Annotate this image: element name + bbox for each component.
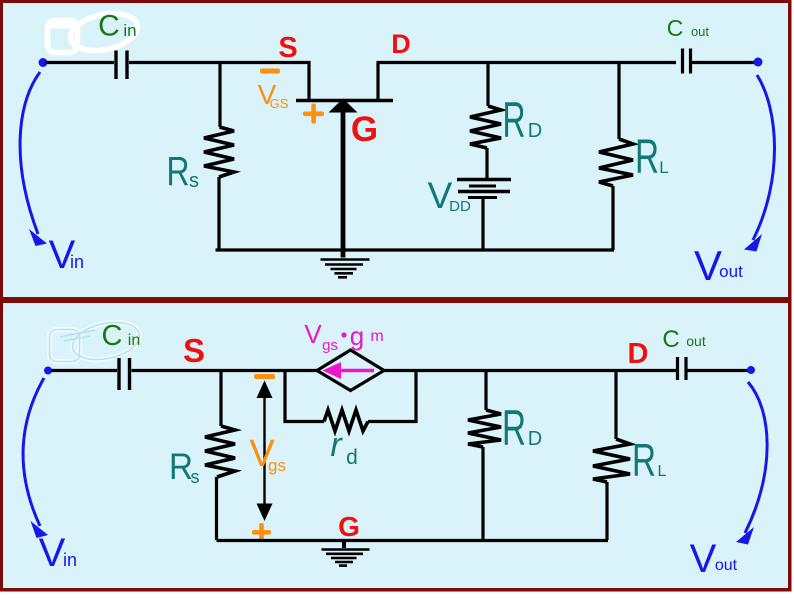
- svg-text:C: C: [102, 320, 123, 352]
- svg-text:R: R: [167, 148, 190, 194]
- capacitor Cout (bottom): [678, 357, 687, 380]
- label RD (bottom): [502, 400, 542, 456]
- label Cin (top): [98, 10, 136, 43]
- wire Cout to output terminal (bottom): [688, 369, 750, 372]
- ground (bottom): [342, 542, 346, 548]
- wire RL to bottom rail: [611, 186, 614, 250]
- wire diamond to drain rail (bottom): [384, 369, 676, 372]
- svg-text:r: r: [330, 426, 343, 464]
- svg-text:DD: DD: [449, 198, 471, 215]
- svg-text:D: D: [628, 338, 649, 370]
- label RD (top): [503, 92, 543, 148]
- resistor RL (top): [599, 139, 633, 186]
- svg-text:D: D: [528, 120, 542, 142]
- annotation arrow Vgs double-headed: [263, 392, 265, 510]
- arrow Vout (top): [753, 75, 775, 240]
- label VGS (top): [258, 79, 289, 111]
- wire Cout to output terminal: [692, 61, 756, 64]
- svg-text:in: in: [128, 332, 140, 349]
- svg-text:in: in: [63, 550, 77, 570]
- wire bottom rail (top panel): [216, 248, 615, 251]
- label rd: [330, 426, 358, 469]
- resistor RD (top): [470, 106, 501, 148]
- label RL (top): [635, 131, 669, 184]
- wire RL to bottom rail (bottom): [605, 482, 608, 540]
- label Cout (bottom): [662, 326, 706, 353]
- resistor RS (bottom): [205, 426, 235, 477]
- wire rd branch right: [368, 372, 416, 422]
- node output terminal (top): [754, 58, 763, 67]
- wire S node down to Rs (bottom): [219, 372, 222, 426]
- label Cin (bottom): [102, 320, 141, 352]
- resistor RD (bottom): [468, 410, 501, 447]
- svg-text:R: R: [635, 131, 659, 184]
- svg-text:L: L: [659, 158, 668, 177]
- svg-text:C: C: [667, 15, 684, 41]
- arrow Vout (bottom): [745, 382, 767, 533]
- svg-text:in: in: [123, 21, 136, 40]
- label RS (bottom): [169, 446, 200, 487]
- arrow Vin (bottom): [23, 378, 44, 526]
- svg-text:s: s: [189, 170, 199, 192]
- svg-text:V: V: [39, 531, 66, 575]
- svg-text:V: V: [694, 242, 722, 289]
- svg-text:gs: gs: [268, 456, 286, 475]
- capacitor Cin: [116, 51, 127, 80]
- wire rd branch left: [285, 372, 324, 422]
- label Vgs (bottom): [249, 433, 286, 475]
- node input terminal (top): [39, 58, 48, 67]
- svg-text:m: m: [370, 328, 383, 345]
- svg-text:d: d: [346, 446, 358, 469]
- label Vout (top): [694, 242, 743, 289]
- svg-text:S: S: [278, 32, 297, 64]
- hand cursor icon (bottom, faint): [50, 317, 143, 365]
- svg-text:L: L: [658, 463, 667, 480]
- wire RD branch (bottom): [484, 372, 487, 410]
- node output terminal (bottom): [747, 366, 755, 374]
- svg-text:D: D: [528, 428, 542, 450]
- wire battery to bottom rail: [481, 199, 484, 250]
- transistor Q1 channel bar: [296, 99, 393, 103]
- wire bottom rail (bottom panel): [217, 539, 609, 542]
- svg-text:s: s: [191, 467, 200, 487]
- wire input to Cin (bottom): [51, 369, 117, 372]
- node input terminal (bottom): [44, 367, 52, 375]
- transistor Q1 gate lead: [341, 110, 346, 258]
- svg-text:S: S: [183, 332, 205, 369]
- svg-text:in: in: [70, 252, 84, 272]
- label Vgs.gm (magenta): [304, 319, 383, 354]
- label Vin (top): [49, 233, 84, 277]
- resistor RS (top): [204, 127, 234, 177]
- wire RD branch top: [486, 64, 489, 106]
- svg-text:g: g: [350, 321, 364, 351]
- wire RD to battery: [485, 148, 488, 178]
- label plus of VGS (top): [303, 104, 324, 124]
- svg-text:G: G: [351, 110, 378, 149]
- resistor RL (bottom): [593, 439, 630, 482]
- capacitor Cin (bottom): [119, 358, 130, 390]
- wire Rs to bottom rail (bottom): [215, 477, 218, 540]
- svg-text:R: R: [169, 446, 193, 487]
- label Vout (bottom): [690, 537, 738, 581]
- dependent source arrow (magenta): [336, 369, 374, 372]
- svg-text:D: D: [391, 29, 411, 59]
- ground (top): [321, 260, 370, 278]
- label RS (top): [167, 148, 200, 194]
- svg-text:GS: GS: [270, 96, 289, 111]
- resistor rd: [324, 410, 368, 431]
- svg-text:out: out: [691, 24, 709, 39]
- svg-text:C: C: [662, 326, 679, 353]
- battery VDD: [457, 180, 511, 198]
- label Cout (top): [667, 15, 710, 41]
- wire RD to bottom rail (bottom): [481, 447, 484, 540]
- svg-text:V: V: [690, 537, 717, 581]
- transistor Q1 drain lead: [376, 63, 379, 101]
- wire RL branch (bottom): [614, 372, 617, 439]
- svg-text:R: R: [503, 92, 526, 148]
- node S junction wire down to Rs: [218, 64, 221, 127]
- dependent source Vgs*gm diamond: [317, 350, 384, 391]
- svg-text:out: out: [715, 557, 738, 574]
- svg-text:out: out: [719, 262, 743, 281]
- svg-text:gs: gs: [322, 337, 338, 354]
- label plus of Vgs (bottom): [252, 523, 271, 541]
- label VDD: [428, 175, 471, 216]
- wire input to Cin: [46, 61, 114, 64]
- svg-text:G: G: [338, 511, 360, 542]
- arrow Vin (top): [20, 72, 40, 234]
- wire Rs to bottom rail: [217, 177, 220, 249]
- label RL (bottom): [632, 434, 667, 486]
- wire Cin to S corner: [129, 63, 309, 100]
- svg-text:V: V: [304, 319, 322, 349]
- wire drain rail (top): [377, 61, 677, 64]
- label minus of Vgs (bottom): [254, 374, 275, 379]
- svg-text:out: out: [686, 333, 706, 349]
- wire RL branch top: [617, 64, 620, 139]
- capacitor Cout (top): [683, 49, 691, 74]
- label Vin (bottom): [39, 531, 77, 575]
- svg-text:R: R: [632, 434, 656, 486]
- transistor Q1 gate arrow: [329, 99, 358, 113]
- label minus of VGS (top): [260, 69, 280, 74]
- hand cursor icon (top): [48, 8, 141, 56]
- wire Cin to diamond (bottom): [132, 369, 319, 372]
- svg-text:R: R: [502, 400, 526, 456]
- svg-text:C: C: [98, 10, 120, 43]
